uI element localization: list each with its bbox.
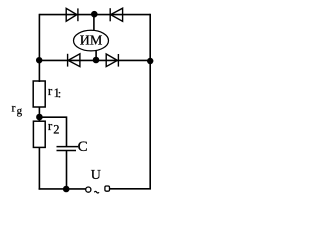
- svg-text::: :: [58, 87, 61, 101]
- wire right vertical: [149, 14, 151, 190]
- svg-text:2: 2: [53, 123, 59, 137]
- terminal left: [86, 187, 91, 192]
- svg-text:U: U: [91, 168, 101, 183]
- label ac tilde: [94, 191, 99, 193]
- wire stub motor bottom: [95, 50, 97, 60]
- wire r1 to node: [38, 107, 40, 121]
- node row2 right: [147, 58, 153, 64]
- resistor r2: [33, 121, 45, 147]
- svg-text:r: r: [48, 118, 53, 133]
- wire capacitor to bottom: [66, 151, 68, 190]
- diode VD1: [66, 8, 78, 21]
- wire bottom left segment: [39, 188, 86, 190]
- wire bottom right segment: [110, 188, 151, 190]
- svg-text:g: g: [17, 105, 23, 117]
- capacitor C: [57, 147, 79, 151]
- svg-text:r: r: [12, 101, 16, 115]
- terminal right: [105, 186, 110, 191]
- svg-text:r: r: [48, 83, 53, 98]
- wire r2 down to bottom: [38, 147, 40, 189]
- diode VD2: [110, 8, 122, 21]
- node row2 left: [36, 57, 42, 63]
- diode VD3: [68, 54, 80, 67]
- wire branch to capacitor: [39, 117, 66, 146]
- wire stub motor top: [93, 14, 95, 30]
- svg-text:C: C: [78, 139, 88, 155]
- label r1: [48, 83, 61, 101]
- wire row2 horizontal: [39, 59, 150, 61]
- svg-text:ИМ: ИМ: [80, 33, 103, 48]
- diode VD4: [106, 54, 118, 67]
- resistor r1: [33, 81, 45, 107]
- motor IM U1: [74, 30, 109, 51]
- label r2: [48, 118, 60, 137]
- wire top horizontal: [39, 14, 150, 16]
- node top junction: [91, 11, 98, 18]
- wire left vertical: [38, 14, 40, 82]
- node capacitor-bottom junction: [63, 186, 70, 193]
- node row2 center: [93, 57, 100, 64]
- node r1-r2 junction: [36, 114, 43, 121]
- label rg: [12, 101, 23, 118]
